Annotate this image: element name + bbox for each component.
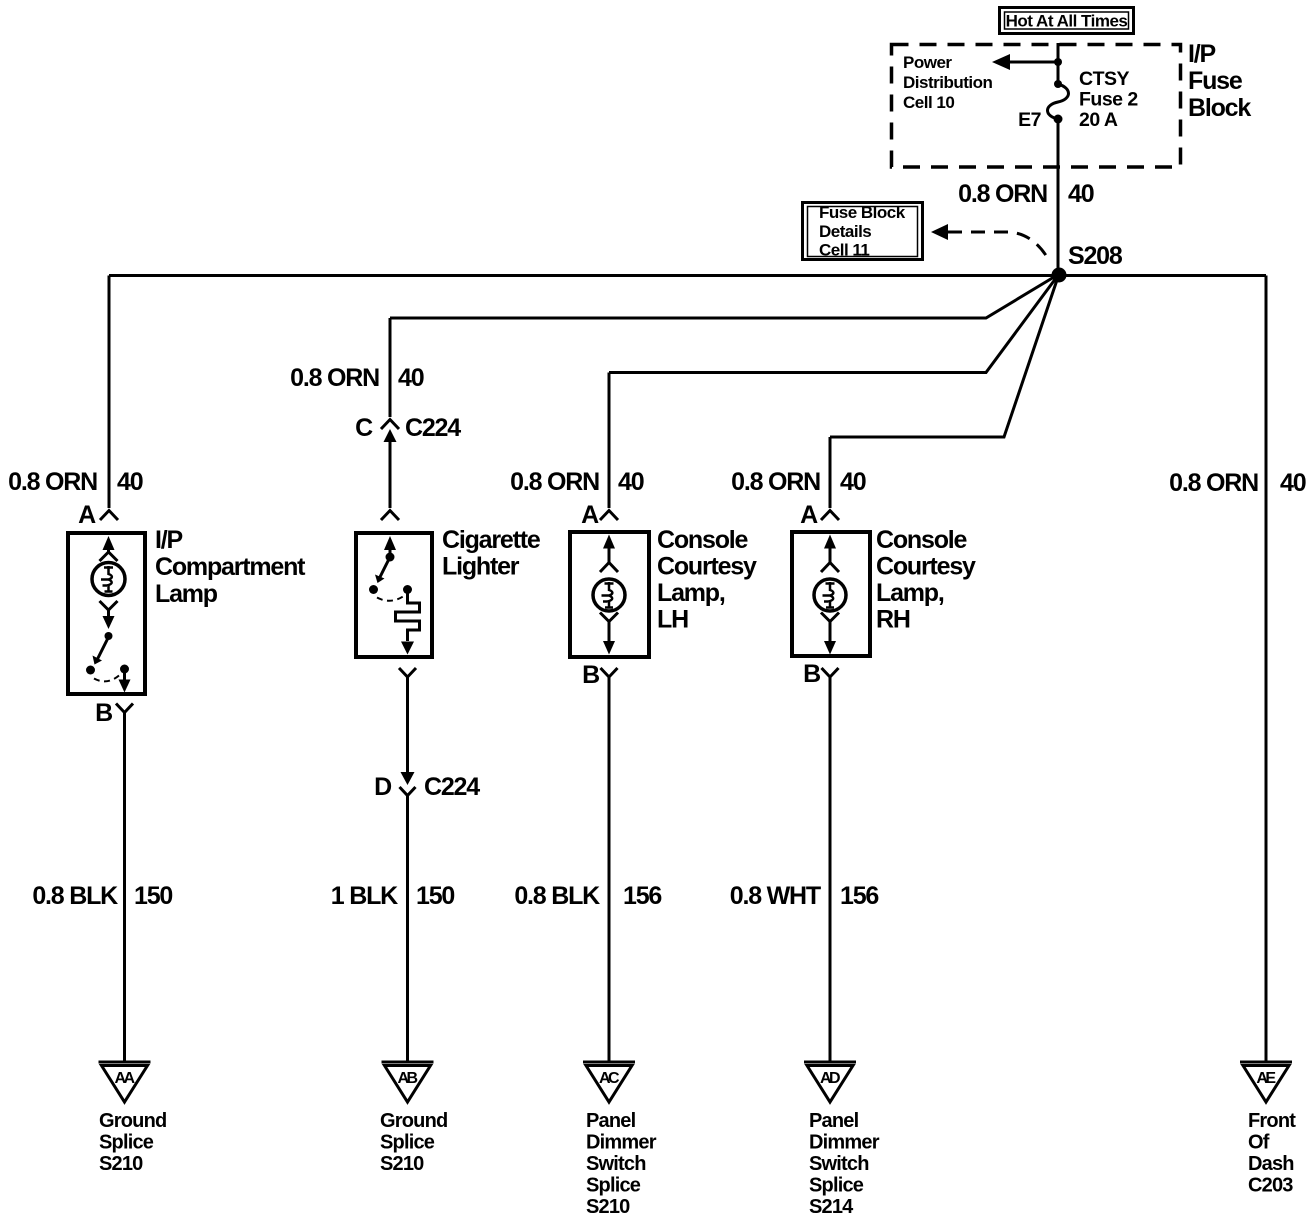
svg-text:1 BLK: 1 BLK (331, 882, 398, 910)
svg-text:AB: AB (397, 1070, 417, 1087)
svg-text:0.8 BLK: 0.8 BLK (32, 882, 118, 910)
svg-text:150: 150 (416, 882, 454, 910)
svg-text:Lamp,: Lamp, (657, 579, 725, 607)
svg-text:Distribution: Distribution (903, 73, 992, 92)
svg-text:Ground: Ground (380, 1110, 447, 1132)
svg-text:Switch: Switch (809, 1153, 869, 1175)
svg-text:Splice: Splice (809, 1175, 864, 1197)
svg-text:Details: Details (819, 222, 871, 241)
svg-text:AC: AC (599, 1070, 620, 1087)
svg-text:40: 40 (1280, 469, 1306, 497)
svg-text:AE: AE (1256, 1070, 1276, 1087)
svg-text:B: B (803, 660, 820, 688)
svg-text:LH: LH (657, 606, 688, 634)
svg-text:S208: S208 (1068, 242, 1123, 270)
svg-text:40: 40 (398, 364, 424, 392)
svg-text:0.8 WHT: 0.8 WHT (730, 882, 821, 910)
svg-text:Console: Console (876, 526, 968, 554)
svg-text:0.8 ORN: 0.8 ORN (290, 364, 379, 392)
svg-text:Courtesy: Courtesy (876, 553, 976, 581)
svg-text:Lamp,: Lamp, (876, 579, 944, 607)
svg-text:Front: Front (1248, 1110, 1296, 1132)
svg-text:A: A (800, 501, 818, 529)
svg-text:C224: C224 (424, 773, 480, 801)
svg-text:S210: S210 (99, 1153, 143, 1175)
svg-text:Fuse Block: Fuse Block (819, 203, 906, 222)
svg-text:Cigarette: Cigarette (442, 526, 541, 554)
svg-text:Cell 10: Cell 10 (903, 93, 954, 112)
svg-text:AA: AA (114, 1070, 135, 1087)
svg-text:40: 40 (840, 468, 866, 496)
svg-text:0.8 BLK: 0.8 BLK (514, 882, 600, 910)
svg-text:Ground: Ground (99, 1110, 166, 1132)
svg-text:156: 156 (623, 882, 661, 910)
svg-text:D: D (374, 773, 391, 801)
svg-text:S210: S210 (586, 1196, 630, 1218)
svg-text:E7: E7 (1018, 109, 1041, 131)
svg-text:Of: Of (1248, 1132, 1270, 1154)
svg-text:0.8 ORN: 0.8 ORN (1169, 469, 1258, 497)
svg-text:C: C (355, 414, 373, 442)
svg-text:Dimmer: Dimmer (586, 1132, 657, 1154)
svg-text:AD: AD (820, 1070, 840, 1087)
svg-text:S214: S214 (809, 1196, 854, 1218)
svg-text:40: 40 (1068, 180, 1094, 208)
svg-text:Block: Block (1188, 94, 1251, 122)
svg-text:20 A: 20 A (1079, 109, 1118, 131)
svg-text:B: B (582, 661, 599, 689)
svg-text:156: 156 (840, 882, 878, 910)
svg-text:Dimmer: Dimmer (809, 1132, 880, 1154)
svg-text:C203: C203 (1248, 1175, 1293, 1197)
svg-text:B: B (95, 699, 112, 727)
svg-text:150: 150 (134, 882, 172, 910)
svg-text:Compartment: Compartment (155, 553, 306, 581)
svg-text:0.8 ORN: 0.8 ORN (958, 180, 1047, 208)
svg-text:40: 40 (117, 468, 143, 496)
svg-text:Cell 11: Cell 11 (819, 241, 869, 260)
svg-text:I/P: I/P (1188, 40, 1215, 68)
svg-text:Fuse 2: Fuse 2 (1079, 89, 1138, 111)
svg-text:40: 40 (618, 468, 644, 496)
svg-text:S210: S210 (380, 1153, 424, 1175)
svg-text:Power: Power (903, 53, 952, 72)
svg-text:Console: Console (657, 526, 749, 554)
svg-text:0.8 ORN: 0.8 ORN (510, 468, 599, 496)
svg-text:RH: RH (876, 606, 910, 634)
svg-text:Panel: Panel (586, 1110, 636, 1132)
svg-text:Splice: Splice (586, 1175, 641, 1197)
svg-text:I/P: I/P (155, 526, 182, 554)
svg-text:Fuse: Fuse (1188, 67, 1243, 95)
svg-text:0.8 ORN: 0.8 ORN (8, 468, 97, 496)
svg-text:C224: C224 (405, 414, 461, 442)
svg-text:CTSY: CTSY (1079, 68, 1130, 90)
svg-text:Courtesy: Courtesy (657, 553, 757, 581)
svg-text:Hot At All Times: Hot At All Times (1006, 12, 1128, 31)
svg-text:0.8 ORN: 0.8 ORN (731, 468, 820, 496)
svg-text:A: A (78, 501, 96, 529)
svg-text:Switch: Switch (586, 1153, 646, 1175)
svg-text:Lighter: Lighter (442, 553, 520, 581)
svg-text:Lamp: Lamp (155, 580, 218, 608)
svg-text:Dash: Dash (1248, 1153, 1294, 1175)
svg-text:Panel: Panel (809, 1110, 859, 1132)
svg-text:Splice: Splice (99, 1132, 154, 1154)
svg-text:Splice: Splice (380, 1132, 435, 1154)
svg-text:A: A (581, 501, 599, 529)
